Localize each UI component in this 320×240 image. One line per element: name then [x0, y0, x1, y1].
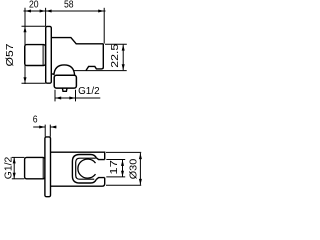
- svg-text:20: 20: [29, 0, 39, 11]
- svg-text:58: 58: [64, 0, 74, 11]
- svg-text:G1/2: G1/2: [78, 86, 100, 97]
- svg-text:G1/2: G1/2: [4, 156, 15, 179]
- svg-text:22.5: 22.5: [110, 43, 121, 68]
- svg-text:6: 6: [33, 114, 38, 125]
- svg-text:17: 17: [109, 160, 120, 175]
- svg-text:Ø57: Ø57: [5, 43, 16, 67]
- svg-text:Ø30: Ø30: [129, 158, 140, 179]
